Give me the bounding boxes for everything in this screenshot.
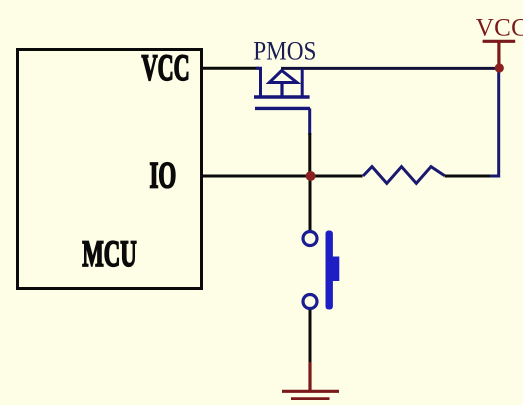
svg-text:IO: IO [150, 155, 177, 196]
svg-text:VCC: VCC [476, 14, 523, 41]
svg-text:PMOS: PMOS [253, 37, 316, 66]
svg-text:MCU: MCU [82, 234, 137, 275]
svg-text:VCC: VCC [142, 48, 190, 89]
